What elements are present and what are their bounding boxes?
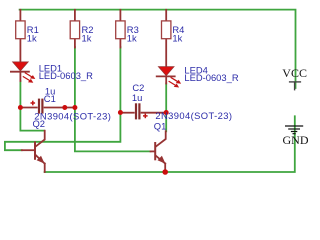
svg-text:2N3904(SOT-23): 2N3904(SOT-23)	[34, 110, 111, 121]
svg-text:LED-0603_R: LED-0603_R	[39, 70, 93, 81]
svg-text:2N3904(SOT-23): 2N3904(SOT-23)	[155, 110, 232, 121]
svg-text:1k: 1k	[127, 32, 137, 43]
svg-text:VCC: VCC	[282, 66, 307, 80]
svg-text:Q2: Q2	[33, 118, 46, 129]
svg-text:LED-0603_R: LED-0603_R	[184, 72, 238, 83]
svg-text:C1: C1	[44, 93, 56, 104]
svg-text:Q1: Q1	[154, 120, 167, 131]
svg-text:1k: 1k	[82, 32, 92, 43]
svg-text:1k: 1k	[27, 32, 37, 43]
svg-text:1u: 1u	[132, 92, 142, 103]
svg-text:1k: 1k	[172, 32, 182, 43]
svg-text:GND: GND	[283, 133, 309, 147]
